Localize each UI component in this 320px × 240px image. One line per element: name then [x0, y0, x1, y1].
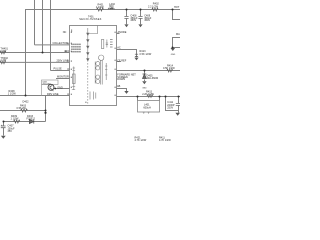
inductor L402: [108, 8, 114, 10]
wire AC-in line 1: [0, 52, 70, 54]
wire AC pin right: [117, 50, 137, 55]
svg-text:MONITOR: MONITOR: [57, 76, 69, 79]
resistor R403: [21, 109, 28, 112]
resistor R401: [97, 8, 104, 11]
L401 drops: [138, 97, 160, 101]
resistor R402: [152, 8, 158, 11]
svg-text:ANODE: ANODE: [118, 31, 127, 34]
wire vertical x42 from top edge: [42, 0, 44, 53]
ground screen: [124, 91, 128, 94]
svg-text:NC: NC: [63, 31, 67, 34]
interior zener: [106, 40, 108, 48]
wire collector pin: [35, 44, 70, 46]
wire vertical x50 from top edge: [50, 0, 52, 71]
wire anode stub: [117, 33, 120, 35]
transistor Q401: [48, 84, 54, 90]
interior link top: [88, 26, 98, 34]
svg-text:uH: uH: [110, 7, 113, 10]
svg-text:GND: GND: [142, 88, 147, 90]
diode chain line: [87, 28, 89, 60]
interior bottom marks: [90, 92, 96, 100]
wire left rail: [0, 95, 70, 97]
interior right marks: [105, 63, 107, 80]
svg-text:0.5K 1/2W: 0.5K 1/2W: [140, 53, 152, 56]
svg-text:4.7K 1/2W: 4.7K 1/2W: [135, 139, 147, 141]
capacitor C407 plates: [1, 126, 6, 128]
wire B R409 row: [4, 121, 46, 123]
ground R413: [134, 58, 138, 61]
inductor L401 box: [138, 101, 160, 113]
resistor R409: [14, 120, 20, 123]
diode D405 branch: [144, 71, 146, 82]
cap C411 branch: [166, 97, 179, 113]
svg-text:0.5K 1/2W: 0.5K 1/2W: [163, 67, 175, 70]
zener R413 comp: [135, 54, 138, 57]
svg-text:CF REF: CF REF: [117, 59, 127, 62]
wire gnd pin: [54, 88, 70, 90]
IC box T401: [70, 26, 117, 106]
transistor Q401 box label: [42, 80, 59, 85]
svg-text:SEC30-H2NSE3: SEC30-H2NSE3: [79, 18, 102, 21]
svg-text:450V: 450V: [130, 19, 136, 22]
wire top right branch: [173, 10, 181, 20]
wire vertical x45: [45, 96, 47, 122]
wire vertical from top rail corner x25: [25, 10, 27, 96]
thermistor TH401: [0, 51, 6, 54]
wire cf stub: [117, 61, 122, 63]
wire vertical x34 from top edge: [34, 0, 36, 45]
wire top right gnd net: [173, 38, 181, 48]
capacitor C409 drop: [140, 10, 142, 25]
wire right rail: [117, 96, 181, 98]
ground top right: [171, 48, 176, 51]
svg-text:PULSE: PULSE: [54, 67, 63, 70]
capacitor C408 plates: [1, 17, 180, 128]
interior windings: [96, 62, 100, 66]
wire top rail: [25, 9, 180, 11]
capacitor C411 plates: [176, 103, 180, 105]
svg-text:1 1/2W: 1 1/2W: [8, 93, 17, 96]
svg-text:0.56 2W: 0.56 2W: [17, 107, 27, 110]
ground C411: [175, 113, 180, 116]
resistor R415: [147, 95, 153, 98]
svg-text:1 2W: 1 2W: [0, 59, 6, 62]
svg-text:35V: 35V: [8, 130, 13, 133]
svg-text:AC: AC: [117, 47, 121, 50]
ground C407: [1, 136, 6, 139]
resistor R414: [167, 69, 173, 72]
interior resistor: [101, 40, 103, 49]
svg-text:MA: MA: [176, 33, 180, 36]
wire screen stub: [117, 89, 127, 92]
svg-text:40A-360M: 40A-360M: [147, 77, 159, 80]
svg-text:D402: D402: [23, 100, 30, 103]
pin number specks: [65, 50, 67, 51]
svg-text:2.2 1/2W: 2.2 1/2W: [148, 5, 159, 8]
svg-text:1 2W: 1 2W: [0, 50, 6, 53]
svg-text:1 1/2W: 1 1/2W: [96, 6, 105, 9]
svg-text:450V: 450V: [144, 19, 150, 22]
svg-text:DOWN: DOWN: [117, 78, 125, 81]
wire CF row: [117, 70, 181, 72]
svg-text:2.2K 1/2W: 2.2K 1/2W: [142, 93, 154, 96]
IC interior: [72, 26, 113, 105]
svg-text:AB: AB: [117, 85, 121, 88]
capacitor C408 drop: [126, 10, 128, 25]
interior left ladder: [73, 67, 75, 91]
interior circle transistor: [99, 55, 104, 60]
ground C409: [138, 24, 142, 27]
ground D405: [142, 81, 146, 84]
svg-text:HOT: HOT: [174, 6, 180, 9]
chain diodes: [87, 33, 89, 61]
wire monitor stub: [56, 78, 70, 80]
wire A R403 row: [0, 110, 46, 112]
svg-text:GND: GND: [171, 54, 176, 56]
wire AC-in line 2: [0, 61, 70, 63]
svg-text:4.7K 1/2W: 4.7K 1/2W: [159, 139, 171, 141]
svg-text:1 1/2W: 1 1/2W: [11, 118, 20, 121]
capacitor C407 branch: [3, 122, 5, 136]
svg-text:200V LINE: 200V LINE: [57, 59, 69, 62]
svg-text:250V: 250V: [167, 106, 173, 109]
svg-text:DRV LINE: DRV LINE: [47, 93, 59, 96]
capacitor C409 plates: [138, 17, 142, 19]
ground C408: [124, 24, 128, 27]
svg-text:GND: GND: [57, 87, 63, 90]
transistor dot cluster: [71, 44, 80, 53]
diode D403: [29, 119, 33, 123]
svg-text:COLLECTOR: COLLECTOR: [53, 42, 68, 45]
svg-text:600uH: 600uH: [143, 106, 151, 109]
wire pulse pin: [51, 70, 70, 72]
L401 marks: [143, 112, 150, 114]
svg-text:F2052J: F2052J: [27, 118, 36, 121]
diode D405: [143, 74, 147, 79]
thermistor TH402: [0, 61, 6, 64]
